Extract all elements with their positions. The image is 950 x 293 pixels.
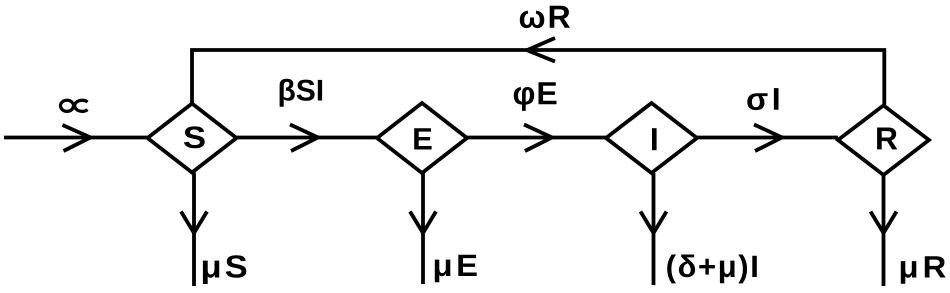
arrowhead I down: [641, 212, 667, 234]
label R: [877, 128, 897, 150]
node E: [377, 103, 467, 173]
label E: [414, 128, 431, 149]
label omegaR: [520, 6, 570, 28]
label S: [184, 126, 205, 148]
label betaSI: [280, 79, 323, 107]
arrowhead input: [63, 125, 91, 151]
label phiE: [514, 82, 557, 111]
node R: [838, 105, 929, 175]
wire E to I: [467, 136, 606, 140]
arrowhead E-I: [524, 125, 552, 152]
label muE: [435, 255, 477, 283]
label proportional-to: [61, 100, 88, 111]
arrowhead S down: [181, 212, 207, 234]
arrowhead R down: [871, 212, 897, 234]
arrowhead E down: [410, 212, 436, 234]
label muR: [901, 256, 946, 284]
wire input to S: [4, 136, 148, 140]
label delta-mu-I: [667, 255, 757, 284]
wire E down: [421, 173, 425, 284]
arrowhead I-R: [754, 125, 782, 152]
wire I to R: [697, 136, 838, 140]
label sigmaI: [747, 88, 778, 110]
wire S to E: [237, 136, 378, 140]
node S: [148, 104, 237, 173]
wire R down: [882, 175, 886, 286]
wire S down: [192, 173, 196, 287]
wire I down: [652, 173, 656, 285]
node I: [606, 103, 697, 173]
arrowhead S-E: [290, 125, 318, 152]
wire feedback R to S: [192, 50, 884, 105]
label muS: [203, 255, 246, 284]
arrowhead feedback: [527, 38, 555, 62]
label I: [652, 128, 657, 150]
